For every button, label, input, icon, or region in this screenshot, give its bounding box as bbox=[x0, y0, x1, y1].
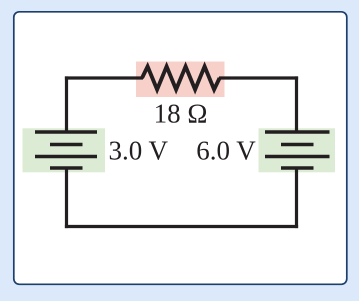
battery V2 highlight bbox=[259, 128, 336, 172]
battery V2 (6.0 V) plates bbox=[265, 132, 330, 168]
svg-text:6.0 V: 6.0 V bbox=[196, 136, 256, 166]
resistor R1 highlight bbox=[136, 62, 225, 98]
wire left upper segment bbox=[65, 76, 68, 132]
wire top-right segment bbox=[219, 76, 298, 79]
battery V2 value label 6.0 V bbox=[196, 136, 256, 166]
wire bottom segment bbox=[65, 225, 298, 228]
wire right upper segment bbox=[295, 76, 298, 132]
resistor R1 value label 18 Ω bbox=[154, 99, 208, 129]
wire left lower segment bbox=[65, 168, 68, 228]
wire right lower segment bbox=[295, 168, 298, 228]
wire top-left segment bbox=[65, 76, 143, 79]
resistor R1 bbox=[142, 67, 220, 90]
battery V1 (3.0 V) plates bbox=[35, 132, 97, 168]
battery V1 highlight bbox=[23, 128, 106, 172]
svg-text:3.0 V: 3.0 V bbox=[109, 136, 169, 166]
battery V1 value label 3.0 V bbox=[109, 136, 169, 166]
svg-text:18 Ω: 18 Ω bbox=[154, 99, 208, 129]
